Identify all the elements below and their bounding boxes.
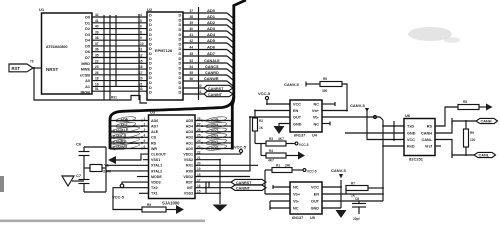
- resistor R8: [458, 100, 479, 110]
- U3 right pin names: [183, 119, 193, 196]
- svg-text:D0: D0: [85, 16, 90, 20]
- TxD wire from U5 OUT up to transceiver: [322, 120, 404, 201]
- svg-text:1K: 1K: [259, 126, 264, 130]
- svg-text:4K7: 4K7: [278, 137, 284, 141]
- svg-text:AD1: AD1: [186, 141, 193, 145]
- svg-text:U6: U6: [405, 113, 411, 118]
- resistor R4 4K7 to LED drive arrow: [261, 144, 305, 163]
- svg-text:6N137: 6N137: [294, 134, 305, 138]
- svg-text:A1: A1: [85, 85, 90, 89]
- svg-text:MWE: MWE: [81, 68, 91, 72]
- svg-text:25: 25: [197, 134, 201, 138]
- VCC-5 supply at U4: [258, 91, 290, 104]
- svg-text:38: 38: [190, 15, 194, 19]
- optocoupler U5 6N137 (transmit): [290, 182, 322, 220]
- MODE stub: [137, 176, 149, 178]
- resistor R3 4K7 pull-up to VCC-5: [255, 137, 309, 147]
- svg-text:42: 42: [95, 13, 99, 17]
- svg-text:ALE: ALE: [151, 130, 159, 134]
- svg-text:R5: R5: [147, 203, 151, 207]
- CLKOUT arrow: [108, 154, 149, 164]
- resistor R1 240 to VCC-5: [265, 164, 317, 195]
- U4 right side wires: [322, 102, 383, 126]
- svg-text:SJA1000: SJA1000: [162, 201, 180, 206]
- svg-text:AD0: AD0: [207, 8, 216, 13]
- svg-text:28: 28: [197, 117, 201, 121]
- wire RST net routed to U2: [34, 68, 147, 103]
- U4 OUT wire (to SJA1000 RX0 vertical): [250, 116, 290, 118]
- resistor R6 390: [320, 77, 347, 111]
- svg-text:37: 37: [190, 9, 194, 13]
- ground symbol below U3: [213, 205, 228, 212]
- svg-text:45: 45: [190, 52, 194, 56]
- svg-text:D1: D1: [85, 21, 90, 25]
- svg-text:VCC: VCC: [293, 103, 301, 107]
- svg-text:54: 54: [190, 65, 194, 69]
- transceiver GND wire: [345, 132, 404, 134]
- svg-text:D3: D3: [85, 33, 90, 37]
- svg-text:CLKOUT: CLKOUT: [151, 153, 167, 157]
- IC U3 CAN controller SJA1000: [149, 110, 196, 206]
- left net label stack feeding U3: AD6,AD7,CANALE,CANCS,CANRD,CANWR: [109, 116, 149, 151]
- VSS2 wire down to ground rail: [195, 160, 220, 194]
- RxD wire to transceiver: [383, 145, 404, 147]
- svg-text:R9: R9: [470, 131, 474, 135]
- svg-text:Vb-: Vb-: [293, 200, 300, 204]
- svg-text:AD6: AD6: [207, 45, 216, 50]
- resistor R7 1K: [322, 182, 384, 198]
- svg-text:AD6: AD6: [151, 119, 158, 123]
- svg-text:R6: R6: [323, 77, 327, 81]
- svg-text:39: 39: [190, 21, 194, 25]
- svg-text:27: 27: [197, 122, 201, 126]
- pin numbers on U1 side of wires: [95, 13, 99, 91]
- svg-text:CANCS: CANCS: [205, 65, 219, 69]
- svg-text:GND: GND: [407, 132, 416, 136]
- svg-text:23: 23: [197, 145, 201, 149]
- svg-text:D: D: [149, 90, 152, 95]
- svg-text:VDD1: VDD1: [183, 153, 193, 157]
- resistor R5: [142, 203, 184, 214]
- svg-text:XTAL2: XTAL2: [151, 169, 162, 173]
- ground symbol under U4: [274, 126, 285, 134]
- svg-text:CANWR: CANWR: [204, 77, 219, 81]
- svg-text:41: 41: [190, 33, 194, 37]
- svg-text:AD0: AD0: [186, 147, 193, 151]
- bus branch down right side of U3: [232, 99, 234, 150]
- capacitor C6: [76, 142, 90, 158]
- junction dot at R6/anode: [346, 110, 348, 112]
- svg-text:AD7: AD7: [151, 125, 158, 129]
- svg-text:390: 390: [322, 89, 328, 93]
- svg-text:6: 6: [140, 25, 142, 29]
- svg-text:20pf: 20pf: [353, 217, 360, 221]
- svg-text:VCC-5: VCC-5: [258, 91, 271, 96]
- optocoupler U4 6N137 (receive): [290, 100, 322, 138]
- U2 right side CAN control net wires CANALE, CANCS, CANRD, CANWR: [183, 59, 233, 86]
- svg-text:56: 56: [190, 77, 194, 81]
- svg-text:NC: NC: [293, 186, 299, 190]
- CANL flag: [474, 152, 496, 157]
- vertical wire right of U2: [198, 7, 200, 100]
- svg-text:39: 39: [95, 30, 99, 34]
- svg-text:CANRD: CANRD: [205, 71, 219, 75]
- svg-text:19: 19: [95, 82, 99, 86]
- svg-text:EN: EN: [293, 109, 299, 113]
- svg-text:XTAL1: XTAL1: [151, 164, 162, 168]
- svg-text:VCC-5: VCC-5: [307, 170, 317, 174]
- svg-text:NC: NC: [314, 123, 320, 127]
- pin numbers on U2 side of wires: [139, 13, 144, 91]
- U4 EN wire to pull-up R2: [255, 111, 290, 119]
- svg-text:CANALE: CANALE: [204, 59, 220, 63]
- svg-text:TX1: TX1: [151, 192, 158, 196]
- svg-text:41: 41: [95, 19, 99, 23]
- crystal Y1 24M: [84, 163, 111, 174]
- svg-text:INT: INT: [187, 186, 194, 190]
- capacitor C8 20pf: [352, 197, 366, 221]
- svg-text:18: 18: [95, 77, 99, 81]
- svg-text:120: 120: [470, 138, 476, 142]
- svg-text:U3: U3: [150, 110, 156, 115]
- svg-text:AD5: AD5: [186, 119, 193, 123]
- svg-text:2: 2: [144, 122, 146, 126]
- node CANINT flag at U2: [204, 91, 233, 97]
- svg-text:Vref: Vref: [425, 145, 433, 149]
- svg-text:5: 5: [144, 139, 146, 143]
- RX0 wire to optocoupler U4 output: [195, 117, 250, 171]
- wire RST to NRST pin 79: [33, 67, 42, 69]
- svg-text:R31: R31: [111, 96, 117, 100]
- svg-text:6: 6: [144, 145, 146, 149]
- RX1 wire: [195, 164, 258, 166]
- svg-text:4: 4: [144, 134, 146, 138]
- scan artifacts: [0, 27, 460, 222]
- svg-text:CANV-5: CANV-5: [331, 168, 346, 173]
- svg-text:CANV-5: CANV-5: [350, 103, 365, 108]
- svg-text:1: 1: [144, 117, 146, 121]
- svg-text:VCC-5: VCC-5: [299, 143, 309, 147]
- svg-text:CANL: CANL: [479, 154, 490, 158]
- crystal oscillator sub-circuit: [62, 142, 149, 193]
- svg-text:OUT: OUT: [311, 200, 320, 204]
- svg-text:35: 35: [95, 54, 99, 58]
- wire junction marks right of U3: [206, 182, 209, 193]
- U5 input wires: [265, 185, 290, 210]
- U1 to U2 data/control wires D0..D7,MRD,MWE,eCSB,A0,A1,IRQB: [92, 17, 147, 91]
- TX1 stub: [139, 192, 149, 194]
- svg-text:24: 24: [197, 139, 201, 143]
- svg-text:CS: CS: [151, 136, 157, 140]
- junction dots: [103, 28, 117, 59]
- svg-text:40: 40: [95, 25, 99, 29]
- svg-text:GND: GND: [293, 123, 302, 127]
- VSS1 stub: [143, 159, 149, 161]
- svg-text:26: 26: [95, 71, 99, 75]
- svg-text:AD3: AD3: [207, 26, 216, 31]
- U3 VDD1 wire to VCC-5: [195, 145, 247, 155]
- svg-text:Vb+: Vb+: [312, 109, 320, 113]
- svg-text:VCC-5: VCC-5: [234, 145, 247, 150]
- svg-text:40: 40: [190, 27, 194, 31]
- U5 GND to ground: [322, 207, 341, 209]
- svg-text:IRQB: IRQB: [81, 91, 91, 95]
- svg-text:8: 8: [140, 30, 142, 34]
- svg-text:CANINT: CANINT: [236, 187, 251, 191]
- svg-text:D5: D5: [85, 44, 90, 48]
- TX0 wire down to R5: [113, 188, 149, 210]
- CANV-5 supply at transceiver: [350, 103, 404, 140]
- data/address bus (thick) vertical at right of U2: [234, 0, 246, 99]
- svg-text:44: 44: [190, 46, 194, 50]
- svg-text:U1: U1: [39, 7, 45, 12]
- svg-text:R2: R2: [259, 119, 263, 123]
- ground symbol under U5 rail: [336, 210, 347, 218]
- svg-text:MODE: MODE: [151, 175, 162, 179]
- svg-text:AD4: AD4: [186, 125, 193, 129]
- svg-text:6N137: 6N137: [292, 216, 303, 220]
- junction bar near U6 pins: [393, 121, 395, 141]
- svg-text:RST: RST: [186, 181, 194, 185]
- transceiver U6 82C251: [404, 113, 435, 162]
- IC U2 CPLD EPM7128: [147, 7, 183, 100]
- svg-text:CANV-5: CANV-5: [284, 82, 299, 87]
- U2 left column IO pin marks: [149, 13, 152, 95]
- svg-text:RX0: RX0: [186, 169, 193, 173]
- U4 GND to ground: [279, 124, 290, 127]
- svg-text:C8: C8: [355, 197, 359, 201]
- wire U2 pin 60: [183, 84, 204, 88]
- wire U2 pin 61: [183, 90, 204, 94]
- svg-text:U5: U5: [310, 216, 315, 220]
- wire crystal to XTAL1: [106, 164, 149, 166]
- svg-text:42: 42: [190, 39, 194, 43]
- svg-text:VCC: VCC: [311, 186, 319, 190]
- svg-text:eCSB: eCSB: [80, 73, 90, 77]
- CANRST flag: [231, 179, 266, 185]
- svg-text:NRST: NRST: [46, 67, 59, 72]
- svg-text:WR: WR: [151, 147, 157, 151]
- svg-text:37: 37: [95, 42, 99, 46]
- svg-text:A0: A0: [85, 79, 90, 83]
- U3 left pin names: [151, 119, 167, 196]
- svg-text:AD5: AD5: [207, 38, 216, 43]
- bus sweep from U2 down-left to SJA1000 label stacks: [110, 96, 234, 149]
- svg-text:VCC: VCC: [407, 138, 415, 142]
- svg-text:VSS1: VSS1: [151, 158, 160, 162]
- svg-text:RS: RS: [427, 125, 433, 129]
- svg-text:AD4: AD4: [207, 32, 216, 37]
- svg-text:38: 38: [95, 36, 99, 40]
- svg-text:D6: D6: [85, 50, 90, 54]
- svg-text:VSS2: VSS2: [184, 158, 193, 162]
- termination resistor R9 120: [464, 120, 476, 156]
- CANINT flag: [231, 185, 266, 191]
- svg-text:D: D: [179, 90, 182, 95]
- right net label stack of U3: AD5..AD0 joining bus: [195, 116, 232, 151]
- capacitor C7: [76, 173, 90, 186]
- svg-text:OUT: OUT: [293, 116, 302, 120]
- svg-text:CANL: CANL: [421, 138, 432, 142]
- svg-text:EN: EN: [314, 193, 320, 197]
- svg-text:RD: RD: [151, 141, 157, 145]
- svg-text:240: 240: [285, 164, 291, 168]
- svg-text:AD3: AD3: [186, 130, 193, 134]
- svg-text:VCC-5: VCC-5: [112, 195, 125, 200]
- svg-text:53: 53: [190, 59, 194, 63]
- wire RS pin to R8: [435, 107, 458, 126]
- svg-text:NC: NC: [293, 207, 299, 211]
- svg-text:AD1: AD1: [207, 14, 216, 19]
- svg-text:AD7: AD7: [207, 51, 216, 56]
- ground of crystal loop: [62, 176, 84, 186]
- svg-text:R3: R3: [269, 137, 273, 141]
- U1 right-side pin names D0-D7, MRD, MWE, eCSB, A0, A1, IRQB: [80, 16, 91, 95]
- U2 right side address/data net wires AD0..AD7 with bus entries: [183, 8, 233, 61]
- CANL wire to flag: [435, 140, 474, 156]
- svg-text:Vb+: Vb+: [293, 193, 301, 197]
- svg-text:CANINT: CANINT: [208, 93, 223, 97]
- CANH flag: [476, 118, 498, 123]
- U5 right: VCC to CANV-5 rail: [322, 168, 346, 208]
- CANV-5 supply label at R6: [284, 82, 320, 88]
- wire R8 to off-page arrow: [479, 104, 493, 111]
- svg-text:C6: C6: [76, 142, 82, 147]
- svg-text:55: 55: [190, 71, 194, 75]
- svg-text:10: 10: [140, 42, 144, 46]
- resistor R2 1K: [253, 118, 264, 144]
- svg-text:26: 26: [197, 128, 201, 132]
- node CANRST flag at U2: [204, 85, 233, 91]
- svg-text:79: 79: [30, 60, 34, 64]
- svg-text:TxD: TxD: [407, 125, 414, 129]
- vertical bus wires crossing between U1 and U2: [104, 14, 139, 100]
- svg-text:R1: R1: [276, 164, 280, 168]
- svg-text:VSS3: VSS3: [184, 192, 193, 196]
- INT wire to CANINT flag: [195, 187, 231, 189]
- svg-text:AD2: AD2: [207, 20, 216, 25]
- svg-text:D7: D7: [85, 56, 90, 60]
- svg-text:Vb-: Vb-: [313, 116, 320, 120]
- junction crosses on CANH/CANL wires: [451, 118, 453, 158]
- svg-text:4K7: 4K7: [268, 159, 274, 163]
- VDD2 stub: [195, 176, 250, 178]
- VSS3 wire to ground: [195, 193, 220, 204]
- RST wire to CANRST flag: [195, 181, 231, 183]
- svg-text:CANH: CANH: [481, 120, 492, 124]
- Vref stub: [435, 145, 441, 147]
- CANH wire to flag: [435, 121, 476, 133]
- svg-text:RST: RST: [12, 66, 21, 71]
- svg-text:82C251: 82C251: [409, 157, 424, 162]
- svg-text:51: 51: [95, 87, 99, 91]
- svg-text:3: 3: [144, 128, 146, 132]
- U2 right column IO pin marks: [179, 13, 182, 95]
- svg-text:NC: NC: [314, 103, 320, 107]
- svg-text:VDD2: VDD2: [183, 175, 193, 179]
- svg-text:R4: R4: [269, 149, 273, 153]
- VCC-5 supply to VDD3: [112, 182, 149, 199]
- svg-text:23: 23: [95, 65, 99, 69]
- svg-text:R8: R8: [463, 100, 467, 104]
- svg-text:GND: GND: [311, 207, 320, 211]
- RST input flag: [9, 60, 147, 104]
- svg-text:CANRST: CANRST: [236, 181, 252, 185]
- svg-text:9: 9: [140, 36, 142, 40]
- svg-text:D2: D2: [85, 27, 90, 31]
- svg-text:U2: U2: [147, 7, 153, 12]
- svg-text:AD2: AD2: [186, 136, 193, 140]
- svg-text:VDD3: VDD3: [151, 181, 161, 185]
- svg-text:CANH: CANH: [421, 132, 432, 136]
- svg-text:EPM7128: EPM7128: [155, 48, 173, 53]
- svg-text:AT91M40800: AT91M40800: [46, 45, 68, 49]
- svg-text:22: 22: [95, 59, 99, 63]
- svg-text:RX1: RX1: [186, 164, 193, 168]
- wire crystal to XTAL2: [106, 170, 149, 172]
- IC U1 microcontroller AT91M40800: [39, 7, 92, 94]
- svg-text:36: 36: [95, 48, 99, 52]
- svg-text:TX0: TX0: [151, 186, 158, 190]
- svg-text:RxD: RxD: [407, 145, 415, 149]
- wire xtal loop: [84, 147, 106, 192]
- svg-text:5: 5: [140, 19, 142, 23]
- svg-text:R7: R7: [351, 182, 355, 186]
- svg-text:C7: C7: [76, 173, 82, 178]
- svg-text:CANRST: CANRST: [208, 87, 224, 91]
- svg-text:4: 4: [140, 13, 142, 17]
- svg-text:MRD: MRD: [81, 62, 90, 66]
